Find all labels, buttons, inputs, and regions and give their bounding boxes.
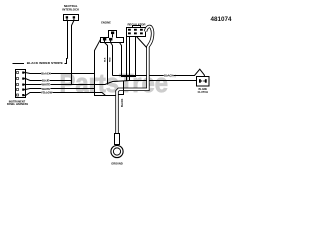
svg-text:BLACK: BLACK — [121, 98, 124, 107]
wire ground feed from main horizontal — [118, 81, 123, 95]
wire regulator pin down 1 — [126, 37, 128, 81]
svg-text:ENGINE: ENGINE — [101, 21, 111, 25]
wire regulator pin diagonal into harness sleeve — [137, 37, 147, 48]
watermark PartsTree — [60, 70, 177, 98]
svg-text:REGULATOR: REGULATOR — [127, 23, 146, 27]
blade clutch connector — [197, 77, 210, 87]
wire neutral interlock right pin down — [72, 21, 74, 85]
svg-text:YELLOW: YELLOW — [41, 91, 53, 95]
svg-text:481074: 481074 — [210, 16, 232, 23]
wire regulator pin down 2 — [129, 37, 131, 81]
svg-text:BLACK: BLACK — [164, 73, 173, 77]
instrument panel connector — [16, 70, 26, 98]
svg-text:BLACK: BLACK — [41, 71, 50, 75]
regulator connector — [127, 26, 146, 37]
wire yellow row — [24, 93, 105, 96]
ground ring terminal — [111, 145, 123, 157]
engine connector — [101, 31, 124, 43]
wire blue row — [24, 79, 71, 81]
wire white row — [24, 84, 71, 86]
svg-text:INTERLOCK: INTERLOCK — [62, 7, 80, 11]
ground terminal barrel — [115, 134, 120, 145]
svg-text:CLUTCH: CLUTCH — [198, 91, 208, 94]
svg-text:WHITE: WHITE — [42, 83, 51, 87]
wire long black to blade clutch — [113, 69, 205, 76]
svg-text:BLACK W/RED STRIPE: BLACK W/RED STRIPE — [27, 61, 63, 65]
wire black row — [24, 73, 94, 74]
wire white row 2 — [24, 89, 94, 90]
thick regulator harness wire to ground (hollow) — [117, 26, 153, 133]
wire engine pin right down — [111, 43, 113, 76]
wire black w/red stripe jog — [65, 59, 68, 64]
neutral interlock connector — [64, 15, 79, 21]
wire main horizontal to blade clutch lower — [72, 81, 197, 85]
svg-text:PANEL HARNESS: PANEL HARNESS — [7, 103, 28, 106]
wire engine left diagonal down to ground run — [95, 39, 117, 96]
svg-text:WHITE: WHITE — [42, 87, 51, 91]
svg-text:RED: RED — [109, 57, 111, 62]
wire black w/red stripe left segment — [13, 63, 25, 65]
svg-text:BLUE: BLUE — [42, 79, 50, 83]
wire neutral interlock left pin down — [67, 21, 69, 59]
svg-text:GROUND: GROUND — [111, 162, 123, 166]
svg-text:BLK: BLK — [105, 57, 107, 62]
wire engine right side down and up to regulator — [120, 37, 136, 77]
wire engine pin left down — [105, 43, 108, 85]
